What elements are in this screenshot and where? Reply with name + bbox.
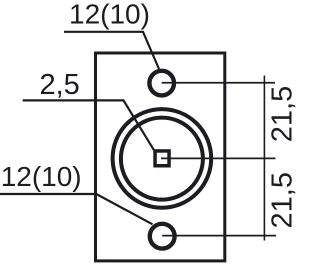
svg-text:21,5: 21,5	[266, 86, 298, 142]
leader line bottom 12(10)	[0, 194, 153, 224]
inner circle of connector	[121, 118, 203, 200]
svg-text:2,5: 2,5	[40, 69, 80, 101]
leader line 2,5	[23, 100, 154, 150]
top hole 12(10)	[149, 71, 174, 96]
extension line from square center	[161, 157, 276, 159]
vertical dimension line	[263, 76, 265, 241]
bottom hole 12(10)	[150, 224, 175, 249]
extension line from bottom hole center	[162, 235, 276, 237]
leader line top 12(10)	[64, 32, 159, 69]
svg-text:12(10): 12(10)	[69, 0, 150, 30]
extension line from top hole center	[162, 82, 275, 84]
svg-text:21,5: 21,5	[266, 172, 298, 228]
center square 2,5	[155, 151, 169, 166]
svg-text:12(10): 12(10)	[1, 161, 82, 192]
outer circle of connector	[113, 109, 212, 208]
plate outline	[96, 53, 225, 261]
